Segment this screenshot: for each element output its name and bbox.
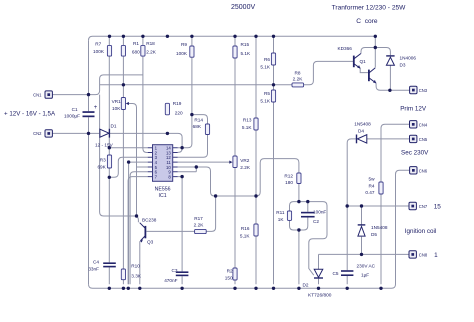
wire D4 anode to CN5 xyxy=(367,138,410,140)
resistor R1 xyxy=(121,45,125,56)
svg-text:C4: C4 xyxy=(93,259,99,264)
svg-text:R19: R19 xyxy=(173,101,182,106)
wire T1 emitter to T2 base xyxy=(360,68,368,72)
wire Q1 collector bus y=47.5 to D3 xyxy=(361,48,390,56)
svg-text:230V AC: 230V AC xyxy=(357,263,376,268)
svg-text:D3: D3 xyxy=(400,63,406,68)
svg-text:5,1K: 5,1K xyxy=(240,234,251,239)
connector CN8 xyxy=(409,251,416,258)
svg-text:+ 12V - 16V - 1,5A: + 12V - 16V - 1,5A xyxy=(4,111,56,118)
op-amp U1 IC1 NE556 body xyxy=(153,145,173,182)
wire D4 cathode down x=347.2 / C5 column xyxy=(347,139,356,284)
svg-text:33nF: 33nF xyxy=(88,267,99,272)
diode D4 xyxy=(356,135,358,144)
diode D1 xyxy=(100,129,109,137)
connector CN3 xyxy=(410,86,417,93)
wire pin14 row to R9 column xyxy=(178,115,192,148)
wire R13/R16 column x=256 xyxy=(255,36,257,284)
svg-text:KT726/800: KT726/800 xyxy=(308,293,332,299)
wire D2 cathode to ground xyxy=(318,279,320,285)
resistor R12 xyxy=(297,173,301,184)
diode D5 xyxy=(358,224,366,226)
svg-text:1µF: 1µF xyxy=(361,273,369,278)
wire pin8/C3 column x=182.1 xyxy=(178,177,182,285)
svg-text:R8: R8 xyxy=(295,71,301,76)
svg-text:1N4006: 1N4006 xyxy=(400,56,417,61)
connector CN2 xyxy=(45,130,52,137)
svg-text:0.47: 0.47 xyxy=(365,190,375,195)
svg-text:CN4: CN4 xyxy=(419,122,428,127)
svg-text:R4: R4 xyxy=(369,183,375,188)
svg-text:C core: C core xyxy=(356,18,378,25)
svg-text:R17: R17 xyxy=(194,216,203,221)
svg-text:R15: R15 xyxy=(241,42,250,47)
svg-text:CN1: CN1 xyxy=(33,92,42,97)
svg-text:R7: R7 xyxy=(95,41,101,46)
svg-text:D4: D4 xyxy=(358,129,364,134)
svg-text:CN6: CN6 xyxy=(419,169,428,174)
svg-text:Sec 230V: Sec 230V xyxy=(401,150,429,157)
wire R6/R5 column x=273.5 xyxy=(273,36,275,284)
junction dots supply/zero lines xyxy=(87,93,90,96)
svg-text:BC238: BC238 xyxy=(142,218,157,223)
wire bottom node to ground xyxy=(298,230,300,284)
IC pin stubs left xyxy=(148,148,153,177)
wire Q3 collector net y=215.5 xyxy=(100,212,139,222)
junction dots output area xyxy=(374,46,377,49)
svg-text:150: 150 xyxy=(225,275,233,280)
svg-text:10K: 10K xyxy=(112,106,121,111)
svg-text:R9: R9 xyxy=(181,42,187,47)
svg-text:12 - 15V: 12 - 15V xyxy=(95,143,114,148)
svg-text:2.2K: 2.2K xyxy=(146,49,157,54)
resistor R18 xyxy=(141,45,145,56)
svg-text:C3: C3 xyxy=(172,268,178,273)
svg-text:180: 180 xyxy=(285,180,293,185)
wire pin1 row from R3 top xyxy=(109,147,147,149)
svg-text:R13: R13 xyxy=(243,118,252,123)
wire +12V mid rail y=85.5 xyxy=(100,84,274,86)
svg-text:1K: 1K xyxy=(278,217,285,222)
wire R11/C2 bottom node y=230 xyxy=(290,220,308,230)
wire left border x=88.5 lower (C1 bottom to ground rail corner) xyxy=(88,117,90,284)
connector CN6 xyxy=(410,167,417,174)
svg-text:R2: R2 xyxy=(227,269,233,274)
svg-text:Ignition coil: Ignition coil xyxy=(405,228,437,235)
svg-text:R3: R3 xyxy=(100,158,106,163)
wire CN1 row y=97.5 xyxy=(52,75,142,212)
svg-text:D2: D2 xyxy=(303,283,309,288)
svg-text:1000µF: 1000µF xyxy=(64,113,80,118)
wire pin4/pin5 column x=119 xyxy=(129,162,148,284)
resistor R10 xyxy=(121,269,125,280)
svg-text:CN5: CN5 xyxy=(419,137,428,142)
resistor R5 xyxy=(271,90,275,102)
junction dots C2 node xyxy=(297,200,300,203)
svg-text:D1: D1 xyxy=(111,124,117,129)
resistor R17 xyxy=(195,229,207,233)
svg-text:C1: C1 xyxy=(72,107,78,112)
svg-text:Q1: Q1 xyxy=(360,59,367,64)
svg-text:2.2K: 2.2K xyxy=(194,222,205,227)
junction dots ground rail xyxy=(108,287,111,290)
potentiometer VR2 xyxy=(233,156,237,168)
svg-text:R5: R5 xyxy=(264,91,270,96)
transistor Q1 darlington (KD366) first xyxy=(353,56,355,68)
wire R14 bottom to pin12 xyxy=(178,135,208,158)
wire pin3 hook xyxy=(109,157,147,177)
resistor R14 xyxy=(205,124,209,135)
svg-text:3.3K: 3.3K xyxy=(131,274,142,279)
svg-text:R16: R16 xyxy=(241,226,250,231)
wire R7/R3/C4 column x=109.5 xyxy=(108,36,110,284)
svg-text:VR1: VR1 xyxy=(112,99,122,104)
wire R17 leads xyxy=(146,196,215,231)
wire D2 gate feed from C2 top xyxy=(308,202,327,269)
svg-text:5.1K: 5.1K xyxy=(241,51,252,56)
wire left border x=88.5 upper (to C1 top) xyxy=(88,40,90,111)
svg-text:2.2K: 2.2K xyxy=(240,165,251,170)
wire R4 bottom to ground rail xyxy=(380,194,382,284)
connector CN5 xyxy=(410,135,417,142)
junction dots IC area xyxy=(108,146,111,149)
capacitor C1 xyxy=(83,111,95,113)
resistor R15 xyxy=(233,46,237,58)
svg-text:D5: D5 xyxy=(371,232,377,237)
junction dots top rail xyxy=(108,35,111,38)
wire R15/VR2/R2 column x=235 xyxy=(234,36,236,284)
wire R18 column x=142.9 to pin2 xyxy=(143,36,148,152)
resistor R11 xyxy=(287,211,291,220)
resistor R16 xyxy=(254,224,258,236)
capacitor C5 xyxy=(341,270,353,272)
wire C2 column xyxy=(307,202,309,226)
resistor R7 xyxy=(107,45,111,56)
wire net y=196 xyxy=(216,159,299,196)
svg-text:VR2: VR2 xyxy=(240,158,250,163)
svg-text:Prim 12V: Prim 12V xyxy=(400,106,427,113)
connector CN1 xyxy=(45,91,52,98)
svg-text:IC1: IC1 xyxy=(159,193,167,199)
svg-text:1N5408: 1N5408 xyxy=(371,225,388,230)
capacitor C4 xyxy=(103,262,116,264)
svg-text:CN3: CN3 xyxy=(419,88,428,93)
svg-text:Q3: Q3 xyxy=(147,240,154,245)
svg-text:NE556: NE556 xyxy=(155,187,171,193)
svg-text:CN2: CN2 xyxy=(33,131,42,136)
svg-text:15: 15 xyxy=(434,204,442,211)
svg-text:R6: R6 xyxy=(264,57,270,62)
svg-text:R18: R18 xyxy=(146,41,155,46)
svg-text:5.1K: 5.1K xyxy=(242,125,253,130)
wire D3 anode down xyxy=(389,65,391,90)
resistor R13 xyxy=(254,118,258,130)
svg-text:25000V: 25000V xyxy=(231,4,255,11)
svg-text:680: 680 xyxy=(132,49,140,54)
svg-text:R10: R10 xyxy=(131,263,140,268)
wire pin6 hook x=102.8 xyxy=(130,172,148,284)
wire ground rail y=288.3 xyxy=(89,170,410,288)
wire R19 column to pin13 via x=182.1 xyxy=(167,133,182,152)
wire R9 column upper xyxy=(191,36,193,114)
wire T2 emitter to CN3 row xyxy=(376,83,410,90)
IC pin stubs right xyxy=(173,148,178,177)
capacitor C3 xyxy=(176,271,189,273)
resistor R8 xyxy=(292,83,304,87)
svg-text:100nF: 100nF xyxy=(313,210,326,215)
resistor R9 xyxy=(190,46,194,57)
svg-text:220: 220 xyxy=(175,111,183,116)
diode D3 xyxy=(386,55,394,57)
wire pin7 to ground rail xyxy=(128,177,148,285)
svg-text:+: + xyxy=(94,105,98,111)
resistor R3 xyxy=(107,155,111,168)
wire R1/VR1/R10 column x=123.4 xyxy=(122,36,124,284)
resistor R2 xyxy=(233,268,237,280)
svg-text:R12: R12 xyxy=(284,174,293,179)
wire top +12V rail y=36.3 with left border corner xyxy=(89,36,376,40)
svg-text:68K: 68K xyxy=(193,124,202,129)
svg-text:R1: R1 xyxy=(133,41,139,46)
svg-text:5w: 5w xyxy=(369,176,376,181)
wire D2 anode row y=255 to CN8 xyxy=(319,254,410,269)
resistor R6 xyxy=(271,53,275,65)
svg-text:C2: C2 xyxy=(313,219,319,224)
capacitor C2 xyxy=(301,212,315,214)
svg-text:R11: R11 xyxy=(276,210,285,215)
wire pin11 to VR2 wiper xyxy=(178,161,230,163)
wire Q3 emitter down xyxy=(139,241,141,284)
svg-text:R14: R14 xyxy=(194,118,203,123)
transistor Q1 darlington second xyxy=(368,70,370,82)
resistor R19 xyxy=(165,103,169,115)
connector CN4 xyxy=(410,121,417,128)
connector CN7 xyxy=(409,202,416,209)
svg-text:100K: 100K xyxy=(176,51,188,56)
svg-text:KD366: KD366 xyxy=(338,46,353,51)
svg-text:Tranformer 12/230 - 25W: Tranformer 12/230 - 25W xyxy=(332,5,407,12)
svg-text:100K: 100K xyxy=(93,49,105,54)
wire R11/C2 top node y=201.6 xyxy=(290,184,308,212)
transistor Q3 (BC238) xyxy=(144,226,146,238)
wire CN7 row y=207 xyxy=(347,205,409,207)
svg-text:CN8: CN8 xyxy=(419,253,428,258)
wire VR1 wiper to y215.5 xyxy=(129,104,148,217)
wire R8 leads and Q1 base xyxy=(274,61,354,84)
svg-text:69K: 69K xyxy=(97,165,106,170)
wire CN2/D1 row y=133 xyxy=(52,132,167,134)
thyristor D2 xyxy=(314,269,323,277)
svg-text:5.1K: 5.1K xyxy=(260,65,271,70)
potentiometer VR1 xyxy=(121,98,125,110)
wire rail to collector bus x=375.3 xyxy=(374,36,376,67)
wire pin10 to y196 net jog xyxy=(196,167,215,196)
svg-text:470nF: 470nF xyxy=(164,278,177,283)
svg-text:1: 1 xyxy=(434,252,438,259)
wire CN4 to R4 top xyxy=(381,124,410,182)
svg-text:C5: C5 xyxy=(333,271,339,276)
wire pin10/pin9 tie xyxy=(178,167,197,172)
resistor R4 xyxy=(379,182,383,194)
svg-text:1N5408: 1N5408 xyxy=(354,122,371,127)
svg-text:5.1K: 5.1K xyxy=(260,99,271,104)
wire R14 feed y=114.6 xyxy=(192,115,208,124)
svg-text:2.2K: 2.2K xyxy=(293,76,304,81)
wire D5 column x=361.5 xyxy=(361,206,363,254)
svg-text:CN7: CN7 xyxy=(419,204,428,209)
